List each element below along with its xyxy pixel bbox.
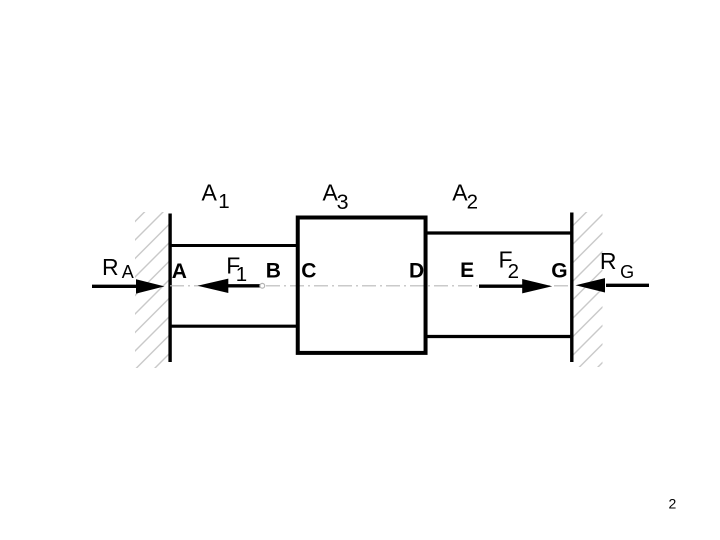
svg-text:E: E — [460, 259, 474, 282]
svg-text:1: 1 — [218, 190, 229, 213]
force arrow F2 — [479, 279, 552, 293]
bar A1 top line — [170, 244, 298, 247]
bar A2 bottom line — [426, 335, 572, 338]
block A3 — [298, 218, 426, 353]
svg-text:B: B — [266, 260, 281, 283]
svg-text:G: G — [620, 262, 634, 282]
svg-text:2: 2 — [669, 496, 677, 512]
bar A1 bottom line — [170, 325, 298, 328]
right wall — [570, 213, 573, 363]
svg-text:A: A — [202, 180, 218, 206]
svg-text:R: R — [102, 254, 119, 280]
svg-text:A: A — [122, 262, 134, 282]
svg-text:R: R — [600, 248, 617, 274]
left wall hatching — [130, 163, 175, 412]
left wall — [168, 214, 171, 363]
centerline — [170, 285, 572, 287]
svg-text:2: 2 — [467, 191, 478, 214]
force arrow R_A — [92, 279, 165, 293]
svg-text:2: 2 — [508, 260, 519, 283]
svg-text:C: C — [301, 260, 316, 283]
force arrow F1 — [198, 279, 261, 293]
svg-text:A: A — [172, 260, 187, 283]
svg-text:D: D — [409, 260, 424, 283]
force arrow R_G — [576, 278, 650, 292]
right wall hatching — [568, 167, 613, 397]
node B circle — [260, 283, 265, 288]
svg-text:G: G — [551, 260, 567, 283]
svg-text:3: 3 — [337, 190, 349, 214]
bar A2 top line — [426, 231, 572, 234]
svg-text:1: 1 — [236, 263, 247, 286]
